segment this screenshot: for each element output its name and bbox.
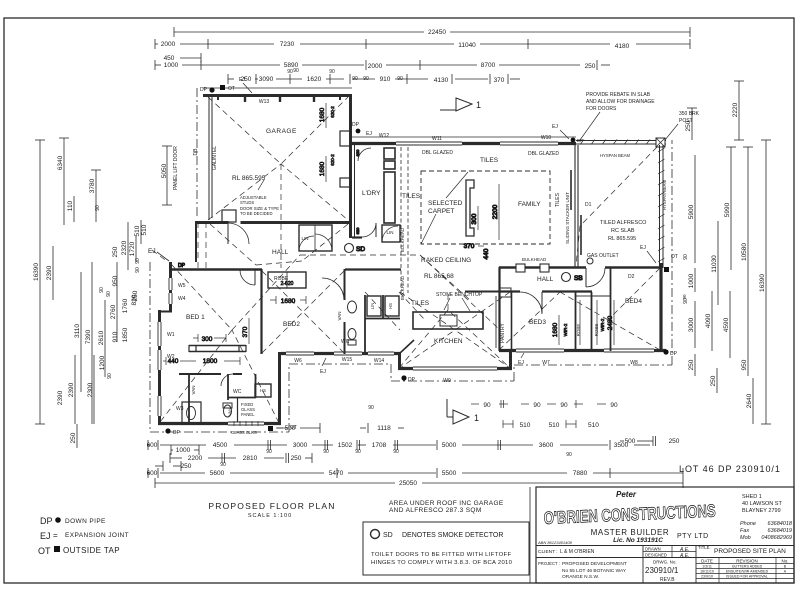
svg-text:TO BE DECIDED: TO BE DECIDED	[240, 211, 273, 216]
window W7 glazing	[516, 348, 564, 353]
svg-text:3780: 3780	[89, 178, 96, 193]
svg-text:1680: 1680	[552, 322, 559, 337]
svg-text:SLIDING STACKER UNIT: SLIDING STACKER UNIT	[565, 192, 570, 244]
svg-text:370: 370	[242, 326, 249, 337]
svg-text:1: 1	[474, 413, 479, 423]
svg-text:BED2: BED2	[283, 321, 300, 328]
svg-text:AND ALFRESCO 287.3 SQM: AND ALFRESCO 287.3 SQM	[389, 507, 482, 514]
svg-text:250: 250	[669, 438, 680, 445]
svg-text:W15: W15	[342, 357, 353, 363]
svg-text:DB: DB	[193, 148, 199, 156]
svg-text:7390: 7390	[85, 329, 92, 344]
svg-text:7880: 7880	[573, 470, 588, 477]
svg-text:=: =	[53, 531, 58, 540]
svg-text:2200: 2200	[188, 455, 203, 462]
garage left wall / panel lift door	[208, 94, 210, 220]
bed2 robe dims	[270, 281, 306, 305]
svg-text:2390: 2390	[46, 265, 53, 280]
window W6 glazing	[286, 351, 314, 356]
roof line above garage corner	[197, 222, 199, 268]
garage hall door	[228, 223, 249, 244]
bottom dim row 250 2200 2810 250	[155, 453, 312, 471]
van basin	[348, 301, 357, 313]
svg-text:W11: W11	[432, 136, 442, 142]
lin closet 2	[382, 225, 400, 242]
bed1 entry door arc	[254, 270, 256, 285]
svg-text:90: 90	[99, 287, 105, 293]
svg-text:A.E.: A.E.	[679, 553, 689, 559]
top dimension row 1000 5890 2000 8700 250	[155, 60, 610, 74]
left dim 110	[67, 196, 101, 222]
carpet leader arrows	[421, 172, 468, 244]
svg-text:510: 510	[520, 422, 531, 429]
svg-text:HALL: HALL	[272, 249, 289, 256]
svg-text:W7: W7	[542, 360, 550, 366]
bed4 robe shelf marks	[579, 300, 581, 345]
svg-text:90: 90	[610, 402, 618, 409]
svg-text:1708: 1708	[372, 442, 387, 449]
90 510 dim cluster right pair	[547, 400, 618, 429]
svg-text:90: 90	[566, 452, 572, 458]
family selected carpet dashed rect	[421, 171, 550, 244]
alfresco right wall	[659, 145, 661, 268]
svg-text:3110: 3110	[74, 324, 81, 338]
svg-text:2810: 2810	[243, 455, 258, 462]
svg-text:4500: 4500	[213, 442, 228, 449]
svg-text:3000: 3000	[688, 317, 695, 332]
kitchen big X	[400, 292, 510, 368]
svg-text:6340: 6340	[57, 155, 64, 170]
kitchen south wall	[398, 367, 512, 370]
kitchen family hips	[399, 310, 510, 368]
pantry walls	[498, 267, 500, 351]
svg-text:3600: 3600	[539, 442, 554, 449]
family west bulkhead dashed	[400, 147, 402, 293]
right dim 16390	[759, 140, 771, 424]
svg-text:500: 500	[625, 438, 636, 445]
svg-text:W5: W5	[178, 283, 186, 289]
svg-text:DP: DP	[670, 351, 678, 357]
garage right wall	[349, 94, 352, 238]
adjustable studs pier	[222, 210, 236, 222]
family inset shelf	[464, 180, 499, 259]
bottom dim 500 1118	[277, 405, 404, 433]
hall south / bed wing north wall	[169, 268, 262, 270]
svg-text:TILED ALFRESCO: TILED ALFRESCO	[600, 220, 647, 226]
bed1 door arc	[221, 374, 233, 386]
svg-text:4130: 4130	[434, 77, 449, 84]
svg-text:EJ: EJ	[552, 124, 558, 130]
right dim 5900	[688, 155, 695, 263]
svg-text:SB: SB	[574, 275, 583, 282]
ldry east wall	[384, 148, 395, 159]
svg-text:W3: W3	[176, 406, 184, 412]
svg-text:250: 250	[181, 463, 192, 470]
eaves gutter dashed outline	[150, 88, 672, 432]
svg-text:W1: W1	[167, 332, 175, 338]
svg-text:250: 250	[112, 246, 119, 257]
svg-text:RL 865.595: RL 865.595	[608, 236, 636, 242]
svg-text:AND ALLOW FOR DRAINAGE: AND ALLOW FOR DRAINAGE	[586, 99, 655, 105]
svg-text:350 BRK: 350 BRK	[679, 111, 700, 117]
glass blocks window	[228, 421, 264, 426]
door D2 arc	[586, 268, 605, 287]
ensuite bed1 south wall	[158, 422, 281, 425]
drawn designed cells	[643, 551, 696, 553]
svg-text:GUTTERS ADDED: GUTTERS ADDED	[732, 565, 763, 569]
svg-text:RC SLAB: RC SLAB	[611, 228, 635, 234]
svg-text:300: 300	[202, 336, 213, 343]
window W15 glazing	[334, 351, 362, 356]
svg-text:PROJECT :: PROJECT :	[538, 561, 560, 566]
svg-text:11040: 11040	[458, 42, 476, 49]
mid south wall bed2 wc	[281, 352, 401, 355]
svg-text:5050: 5050	[161, 163, 168, 178]
svg-text:EXPANSION JOINT: EXPANSION JOINT	[65, 532, 129, 539]
bed1 west wall lower	[158, 310, 161, 425]
svg-text:90: 90	[293, 68, 299, 74]
svg-text:90: 90	[220, 462, 226, 468]
svg-text:ABN 86123451408: ABN 86123451408	[537, 540, 573, 545]
svg-text:DATE: DATE	[701, 559, 713, 564]
svg-text:5990: 5990	[724, 202, 731, 217]
svg-text:90: 90	[352, 76, 358, 82]
svg-text:LOT 46 DP 230910/1: LOT 46 DP 230910/1	[679, 464, 781, 474]
svg-text:DP: DP	[40, 516, 53, 526]
bottom dim row 1000	[171, 445, 199, 455]
svg-text:16390: 16390	[33, 263, 40, 281]
svg-text:D1: D1	[585, 202, 592, 208]
svg-text:FOR DOORS: FOR DOORS	[586, 106, 617, 112]
svg-text:W2: W2	[167, 354, 175, 360]
ldry cabinet mid	[384, 161, 395, 169]
wc lin hs upper closets	[367, 296, 381, 316]
svg-text:ENSUITE/WIR AMENDED: ENSUITE/WIR AMENDED	[726, 570, 769, 574]
hall roof valleys	[210, 224, 256, 265]
wc van block walls	[345, 291, 400, 293]
svg-text:W9: W9	[443, 378, 451, 384]
dp ej near W12	[356, 129, 361, 134]
svg-text:ROBE: ROBE	[576, 324, 581, 337]
svg-text:D2: D2	[628, 274, 635, 280]
bed2 roof X	[262, 271, 344, 353]
svg-text:W10: W10	[541, 135, 552, 141]
ensuite east wall	[278, 352, 281, 425]
svg-text:OT: OT	[228, 86, 235, 92]
svg-text:1620: 1620	[307, 76, 322, 83]
garage roof hips	[208, 97, 348, 164]
svg-text:110: 110	[67, 200, 74, 211]
svg-text:DP: DP	[200, 87, 208, 93]
window W9 glazing	[413, 366, 497, 371]
west wall step	[158, 311, 172, 313]
wc toilet	[348, 329, 356, 340]
stacker panels	[570, 170, 572, 210]
window W2 glazing	[157, 350, 162, 370]
svg-text:90: 90	[266, 449, 272, 455]
svg-text:510: 510	[549, 422, 560, 429]
hall west pier	[195, 221, 197, 262]
garage top wall	[203, 94, 352, 97]
alfresco / hall south wall	[499, 266, 586, 269]
svg-text:EJ: EJ	[366, 131, 372, 137]
svg-text:5900: 5900	[688, 204, 695, 219]
alfresco brick hatching	[580, 140, 665, 263]
bed4 east wall	[659, 263, 662, 352]
svg-text:2480: 2480	[607, 315, 614, 330]
svg-text:3000: 3000	[293, 442, 308, 449]
svg-text:HYSPAN BEAM: HYSPAN BEAM	[662, 180, 667, 210]
90 510 dim cluster left pair	[471, 400, 541, 429]
svg-text:DP: DP	[173, 430, 181, 436]
svg-text:250: 250	[710, 375, 717, 386]
svg-text:REV.B: REV.B	[660, 577, 675, 583]
ldry south door arc	[362, 223, 376, 237]
bed3 bed4 dims 1680 2480	[552, 300, 614, 345]
svg-text:SHED 1: SHED 1	[742, 494, 762, 500]
svg-text:PROPOSED SITE PLAN: PROPOSED SITE PLAN	[714, 548, 786, 555]
svg-text:90: 90	[95, 205, 101, 211]
left dims 510 1720 90 90 250	[129, 220, 148, 301]
svg-text:16390: 16390	[759, 274, 766, 292]
svg-text:370: 370	[464, 243, 475, 250]
svg-text:STUDS: STUDS	[240, 200, 254, 205]
west wing roof hips	[160, 264, 232, 422]
svg-text:90: 90	[397, 76, 403, 82]
svg-text:ROBE: ROBE	[594, 324, 599, 337]
svg-text:1200: 1200	[99, 355, 106, 370]
smoke detector box	[363, 522, 529, 575]
bed3 bed4 north wall	[499, 290, 520, 292]
svg-text:1680: 1680	[281, 298, 296, 305]
top dimension line 22450	[174, 27, 690, 37]
svg-text:BED4: BED4	[625, 298, 642, 305]
svg-text:440: 440	[483, 248, 490, 259]
svg-text:1502: 1502	[338, 442, 353, 449]
svg-text:W12: W12	[379, 133, 390, 139]
left dim 3110	[74, 272, 81, 392]
bed4 west robe walls	[575, 292, 577, 351]
svg-text:600: 600	[147, 442, 158, 449]
gas outlet symbol	[587, 258, 593, 264]
top dimension row 450	[164, 53, 201, 63]
svg-text:90: 90	[329, 69, 335, 75]
section flag bottom	[446, 399, 448, 417]
svg-text:90: 90	[355, 449, 361, 455]
top dimension row 2000 7230 11040 4180	[155, 39, 690, 50]
svg-text:W13: W13	[259, 99, 270, 105]
svg-text:PANTRY: PANTRY	[500, 322, 506, 342]
svg-text:4090: 4090	[705, 313, 712, 328]
svg-text:FAMILY: FAMILY	[518, 201, 541, 208]
svg-text:1000: 1000	[164, 62, 179, 69]
panel lift door dim 5050	[161, 146, 199, 205]
svg-text:1000: 1000	[688, 273, 695, 288]
ensuite walls	[188, 374, 190, 422]
left dim 6340	[57, 138, 69, 225]
alfresco roof diagonal	[576, 147, 657, 265]
bed2 robe	[268, 272, 306, 288]
bottom right dim 500 250	[620, 436, 680, 446]
brick post top right	[656, 138, 665, 147]
svg-text:1118: 1118	[377, 425, 391, 432]
svg-text:GLASS BLKS: GLASS BLKS	[231, 430, 257, 435]
eaves dashed outline west	[152, 250, 168, 262]
house top wall west part	[350, 142, 576, 145]
bed2 west wall	[260, 269, 262, 354]
svg-text:HYSPAN BEAM: HYSPAN BEAM	[600, 153, 630, 158]
svg-text:620: 620	[355, 227, 360, 234]
family dim 2200	[498, 184, 500, 240]
bed1 robe walls	[189, 345, 246, 347]
svg-text:2000: 2000	[161, 41, 176, 48]
left dim column 16390	[33, 140, 45, 424]
svg-text:600: 600	[147, 470, 158, 477]
svg-text:BULKHEAD: BULKHEAD	[400, 275, 405, 300]
right dim 250 top	[685, 108, 697, 140]
svg-text:910: 910	[380, 76, 391, 83]
svg-text:DBL GLAZED: DBL GLAZED	[422, 150, 453, 156]
bed2 east wall	[344, 269, 346, 300]
svg-text:2220: 2220	[732, 102, 739, 117]
svg-text:OT: OT	[290, 425, 297, 431]
svg-text:16/11/10: 16/11/10	[700, 570, 714, 574]
svg-text:250: 250	[70, 432, 77, 443]
svg-text:450: 450	[164, 55, 175, 62]
svg-text:10580: 10580	[741, 243, 748, 261]
svg-text:90: 90	[135, 267, 141, 273]
svg-text:Fax: Fax	[740, 528, 749, 534]
hall wall above wc	[345, 268, 401, 270]
ensuite hs	[255, 384, 271, 397]
svg-text:BULKHEAD: BULKHEAD	[400, 227, 405, 252]
svg-text:EJ: EJ	[640, 245, 646, 251]
svg-text:Phone: Phone	[740, 521, 756, 527]
svg-text:2640: 2640	[746, 393, 753, 408]
family dim 300	[477, 206, 479, 230]
svg-text:Peter: Peter	[616, 490, 637, 499]
svg-text:2000: 2000	[368, 63, 383, 70]
ldry south wall	[352, 236, 362, 238]
svg-text:5600: 5600	[210, 470, 225, 477]
bed3 bed4 hips	[499, 292, 560, 350]
svg-text:11030: 11030	[711, 255, 718, 273]
window W3 glazing	[157, 396, 162, 416]
alfresco top beam	[576, 140, 666, 142]
svg-text:WC: WC	[233, 389, 242, 395]
left dim 3780	[89, 170, 101, 222]
svg-text:5470: 5470	[329, 470, 344, 477]
title block outer box	[536, 487, 794, 583]
svg-text:90: 90	[682, 294, 687, 300]
right dim 4090 4590 3000	[688, 291, 730, 358]
svg-text:Mob: Mob	[740, 535, 751, 541]
svg-text:1000: 1000	[176, 447, 191, 454]
window W1 glazing	[157, 322, 162, 346]
right dim 2220	[732, 81, 744, 140]
svg-text:90: 90	[483, 402, 491, 409]
svg-text:STONE BENCHTOP: STONE BENCHTOP	[436, 292, 483, 298]
svg-text:250: 250	[132, 290, 139, 301]
svg-text:VAN: VAN	[227, 408, 232, 416]
left dim 2760	[110, 262, 117, 342]
svg-text:5000: 5000	[442, 442, 457, 449]
svg-text:VAN: VAN	[337, 312, 342, 321]
svg-text:EJ: EJ	[40, 531, 51, 541]
bed1 west wall upper with W5 W4	[169, 262, 172, 312]
svg-text:PANEL LIFT DOOR: PANEL LIFT DOOR	[173, 146, 179, 190]
revision table	[696, 563, 794, 565]
svg-text:CLIENT :: CLIENT :	[538, 549, 558, 555]
right dim 11030	[711, 221, 718, 305]
svg-text:OT: OT	[38, 546, 51, 556]
svg-text:8700: 8700	[481, 62, 496, 69]
svg-text:90: 90	[683, 254, 689, 260]
svg-text:90: 90	[363, 76, 369, 82]
right dim 250 950 2640 250	[688, 354, 753, 424]
svg-text:ORANGE N.S.W.: ORANGE N.S.W.	[562, 574, 599, 580]
left dim 2320	[121, 222, 128, 270]
svg-text:90: 90	[368, 405, 374, 411]
svg-text:63684019: 63684019	[768, 528, 792, 534]
svg-text:DBL GLAZED: DBL GLAZED	[528, 151, 559, 157]
svg-text:HS: HS	[388, 303, 393, 309]
svg-text:GALINTEL: GALINTEL	[212, 146, 218, 170]
left dims lower 2390 2300 2390 250	[57, 355, 94, 448]
left dims 250 950 1760 1850 910 1200	[99, 246, 138, 379]
svg-text:1680: 1680	[319, 107, 326, 122]
svg-text:DRAWN: DRAWN	[645, 547, 661, 552]
lin closet hall	[299, 225, 332, 251]
svg-text:5500: 5500	[442, 470, 457, 477]
family gutter line	[352, 136, 576, 138]
svg-text:BULKHEAD: BULKHEAD	[522, 257, 547, 262]
svg-text:4590: 4590	[723, 317, 730, 332]
svg-text:W6: W6	[294, 358, 302, 364]
svg-text:2390: 2390	[57, 390, 64, 405]
svg-text:GARAGE: GARAGE	[266, 128, 297, 135]
svg-text:1760: 1760	[122, 298, 129, 313]
lin door arcs hall	[299, 236, 314, 251]
bottom dim row 600 4500 3000 1502 1708 5000 3600 3500 250	[147, 440, 650, 458]
window W11 glazing	[396, 141, 462, 146]
top dimension row 250 3090 1620 910 4130 370	[228, 69, 520, 84]
svg-text:300: 300	[471, 213, 478, 224]
svg-text:TITLE.: TITLE.	[698, 545, 711, 550]
svg-text:90: 90	[533, 402, 541, 409]
svg-text:REVISION: REVISION	[736, 559, 758, 564]
svg-text:DESIGNED: DESIGNED	[645, 553, 667, 558]
svg-text:BED 1: BED 1	[186, 314, 205, 321]
svg-text:620-2: 620-2	[330, 106, 335, 118]
svg-text:DP: DP	[178, 263, 186, 269]
svg-text:W14: W14	[374, 358, 385, 364]
ldry tall cabinet	[384, 172, 395, 223]
svg-text:W4: W4	[178, 296, 186, 302]
svg-text:23/9/10: 23/9/10	[701, 575, 713, 579]
svg-text:620-2: 620-2	[330, 154, 335, 166]
kitchen island bench	[413, 312, 483, 329]
svg-text:90: 90	[106, 291, 112, 297]
svg-text:90: 90	[323, 449, 329, 455]
kitchen west return	[399, 340, 414, 354]
svg-text:1800: 1800	[203, 358, 218, 365]
svg-text:SELECTED: SELECTED	[428, 200, 463, 207]
svg-text:DENOTES SMOKE DETECTOR: DENOTES SMOKE DETECTOR	[402, 532, 503, 539]
svg-text:25050: 25050	[399, 480, 417, 487]
svg-text:1850: 1850	[122, 327, 129, 342]
svg-text:63684018: 63684018	[768, 521, 793, 527]
